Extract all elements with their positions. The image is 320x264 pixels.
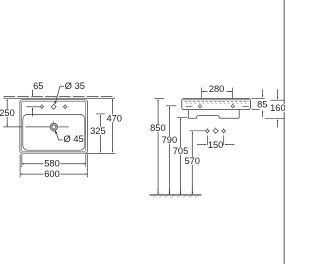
- svg-text:600: 600: [44, 169, 60, 179]
- dimension 790: [162, 106, 178, 194]
- dimension 250 (wall to drain axis): [0, 99, 15, 126]
- hidden dashed line (rim): [185, 100, 249, 102]
- svg-text:325: 325: [90, 126, 106, 136]
- apron / siphon cover: [188, 110, 239, 119]
- svg-text:Ø 45: Ø 45: [64, 134, 84, 144]
- svg-text:850: 850: [150, 123, 166, 133]
- svg-text:280: 280: [209, 84, 225, 94]
- drain hole Ø45 (hatched ring): [50, 123, 58, 132]
- svg-text:250: 250: [0, 108, 15, 118]
- dimension 160 (basin + apron height): [265, 89, 286, 127]
- drain centerline: [3, 121, 69, 127]
- dimension 705: [173, 117, 189, 193]
- basin body: [182, 98, 251, 109]
- wall fixing hole center (circle target): [212, 128, 219, 135]
- svg-text:85: 85: [257, 100, 267, 110]
- floor line with hatching: [150, 195, 202, 198]
- dimension 580: [22, 158, 85, 168]
- side fixing slot left: [186, 106, 193, 108]
- faucet hole right (diamond): [62, 104, 67, 109]
- dimension 65 (wall to tap hole row): [26, 81, 43, 116]
- extension line right of basin bottom: [86, 153, 115, 155]
- fixing hole left (diamond) in body: [198, 105, 201, 108]
- dimension 85 (basin height): [252, 89, 268, 117]
- dimension 600: [20, 169, 87, 179]
- right page border line: [283, 0, 285, 264]
- extension lines below basin: [20, 154, 87, 177]
- dimension 470: [105, 99, 122, 152]
- dimension 850 (line to floor): [150, 99, 166, 194]
- svg-text:570: 570: [184, 156, 200, 166]
- faucet hole center Ø35 (circle target): [51, 104, 57, 110]
- fixing hole right (diamond) in body: [231, 105, 234, 108]
- svg-text:470: 470: [106, 113, 122, 123]
- wall fixing hole right (diamond): [221, 128, 226, 134]
- side fixing slot right: [242, 106, 249, 108]
- faucet hole left (diamond): [39, 104, 44, 109]
- basin inner bowl outline: [23, 114, 85, 150]
- basin outer rim (double rounded rect): [20, 100, 88, 153]
- svg-text:65: 65: [33, 81, 43, 91]
- dimension 325: [90, 114, 106, 152]
- svg-text:580: 580: [44, 158, 60, 168]
- dimension 280 (fixing holes spacing): [201, 84, 232, 98]
- wall band (rear edge): [4, 97, 116, 99]
- svg-text:Ø 35: Ø 35: [65, 81, 85, 91]
- leader line Ø35: [54, 86, 64, 104]
- svg-text:150: 150: [208, 140, 224, 150]
- dimension 570: [184, 131, 205, 194]
- hidden dashed line (bowl): [186, 102, 247, 104]
- svg-text:160: 160: [270, 103, 285, 113]
- dimension 150 (wall holes spacing): [197, 136, 235, 151]
- svg-text:705: 705: [173, 146, 189, 156]
- svg-text:790: 790: [162, 135, 178, 145]
- leader line Ø45: [55, 130, 63, 140]
- floor line arrows: [158, 188, 192, 194]
- wall fixing hole left (diamond): [205, 128, 210, 134]
